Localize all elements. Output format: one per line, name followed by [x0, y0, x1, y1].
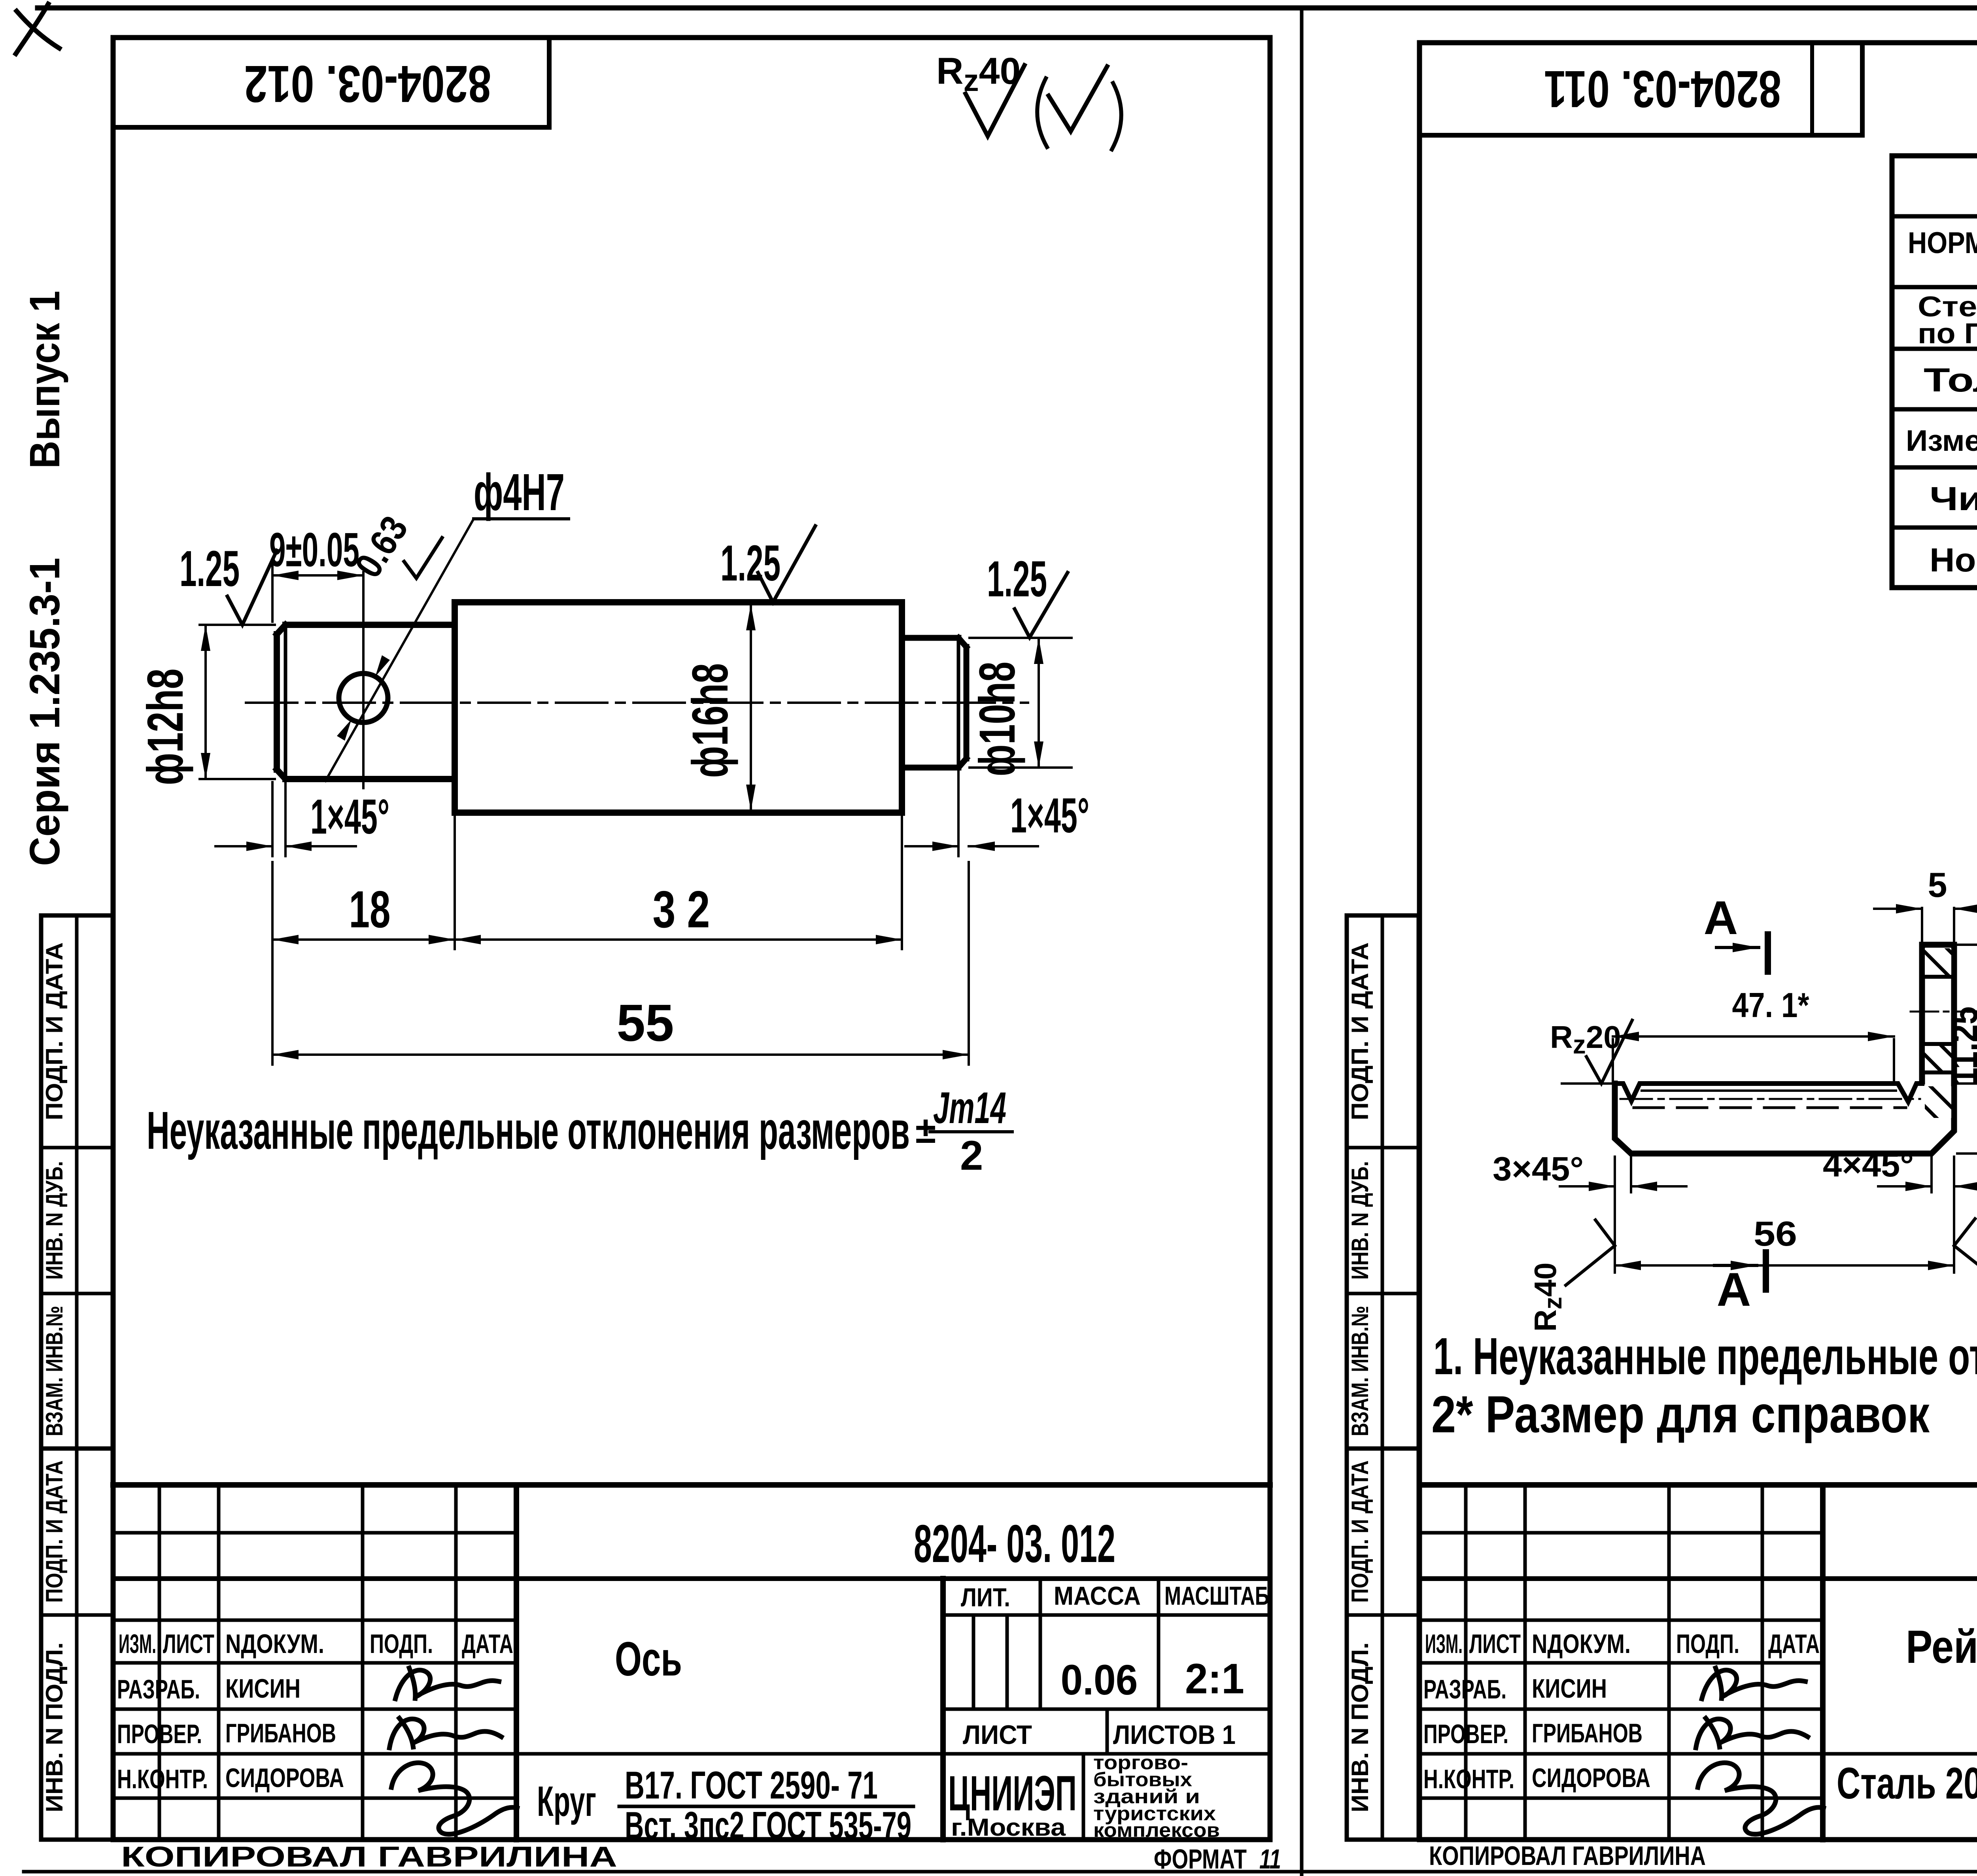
title block vertical lines: [158, 1485, 161, 1840]
svg-text:1.25: 1.25: [987, 551, 1047, 607]
left attribute boxes column (left sheet): [41, 915, 113, 1840]
dim 18: [272, 815, 455, 1065]
pitch line dash-dot: [1620, 1098, 1920, 1100]
phi12/phi16 step edge: [452, 602, 458, 813]
section cut mark top: [1704, 891, 1768, 972]
svg-text:Неуказанные предельные откло: Неуказанные предельные отклонения размер…: [147, 1101, 910, 1160]
right sheet notes: [1431, 1319, 1977, 1443]
dim phi10h8: [969, 638, 1072, 776]
svg-text:Число зубьев: Число зубьев: [1930, 480, 1977, 517]
roughness Rz40 group: [936, 50, 1121, 149]
svg-text:11.25: 11.25: [1943, 1006, 1977, 1086]
dim 1x45 right: [905, 769, 1089, 856]
svg-text:по ГОСТ 10242-73: по ГОСТ 10242-73: [1918, 318, 1977, 350]
right stamp divider: [1810, 43, 1814, 135]
svg-text:ФОРМАТ: ФОРМАТ: [1154, 1844, 1247, 1874]
phi12 left chamfer edge line: [284, 626, 287, 778]
svg-text:1×45°: 1×45°: [1010, 789, 1089, 843]
svg-text:Ось: Ось: [615, 1632, 682, 1686]
svg-text:г.Москва: г.Москва: [951, 1814, 1066, 1841]
tooth tip thin line: [1642, 1089, 1896, 1092]
svg-text:ДАТА: ДАТА: [462, 1629, 513, 1659]
right stamp box: [1419, 43, 1862, 135]
svg-text:18: 18: [349, 880, 391, 938]
hole phi4 circle: [339, 673, 388, 722]
svg-text:Измерительная высота: Измерительная высота: [1906, 424, 1977, 457]
svg-text:1×45°: 1×45°: [310, 790, 389, 844]
svg-text:ф4Н7: ф4Н7: [474, 463, 565, 521]
svg-text:комплексов: комплексов: [1093, 1819, 1220, 1841]
svg-text:0.06: 0.06: [1061, 1656, 1138, 1704]
svg-text:Сталь 20 ГОСТ 1050-74: Сталь 20 ГОСТ 1050-74: [1837, 1759, 1977, 1808]
svg-text:ф12h8: ф12h8: [137, 669, 194, 785]
svg-text:Н.КОНТР.: Н.КОНТР.: [117, 1764, 208, 1794]
dim 47.1*: [1613, 985, 1894, 1082]
svg-text:ЛИТ.: ЛИТ.: [961, 1583, 1010, 1612]
dim 9±0.05: [269, 523, 363, 622]
svg-text:2:1: 2:1: [1185, 1655, 1244, 1702]
svg-text:1. Неуказанные предельные: 1. Неуказанные предельные отклонения раз…: [1433, 1327, 1977, 1385]
svg-text:МАССА: МАССА: [1054, 1581, 1141, 1610]
dim 55: [272, 862, 969, 1065]
roughness 1.25 right: [987, 551, 1068, 637]
svg-text:Выпуск 1: Выпуск 1: [21, 291, 68, 469]
svg-text:МАСШТАБ: МАСШТАБ: [1164, 1581, 1269, 1610]
svg-text:55: 55: [617, 994, 674, 1052]
title block common grid (left sheet), reused for right: [113, 1485, 1270, 1841]
svg-text:Вст. 3пс2 ГОСТ 535-79: Вст. 3пс2 ГОСТ 535-79: [625, 1804, 911, 1847]
svg-text:Rz40: Rz40: [936, 50, 1021, 98]
svg-text:ИНВ. N ДУБ.: ИНВ. N ДУБ.: [41, 1161, 68, 1280]
rack main view outline: [1615, 945, 1954, 1154]
vertical dim 21: [1957, 945, 1977, 1084]
svg-text:ЛИСТ: ЛИСТ: [163, 1629, 214, 1659]
svg-text:ф10h8: ф10h8: [969, 662, 1026, 776]
svg-text:СИДОРОВА: СИДОРОВА: [225, 1763, 344, 1793]
svg-text:ИНВ. N ПОДЛ.: ИНВ. N ПОДЛ.: [41, 1642, 68, 1812]
roughness 1.25 middle: [720, 526, 815, 602]
dim 1x45 left: [215, 782, 389, 856]
svg-text:8204-03. 012: 8204-03. 012: [244, 55, 491, 113]
svg-text:Круг: Круг: [537, 1777, 596, 1825]
svg-text:КОПИРОВАЛ ГАВРИЛИНА: КОПИРОВАЛ ГАВРИЛИНА: [1429, 1841, 1706, 1871]
roughness 0.63 at hole: [347, 509, 442, 585]
svg-text:Рейка: Рейка: [1906, 1621, 1977, 1673]
vertical dim 11.25: [1943, 1006, 1977, 1086]
corner X handwritten mark: [16, 4, 59, 54]
roughness 1.25 left: [180, 541, 277, 625]
dim 5 (flange width): [1874, 865, 1977, 943]
left sheet frame: [113, 38, 1270, 1840]
label phi4H7 with leader: [325, 463, 569, 781]
svg-text:1.25: 1.25: [720, 535, 781, 592]
svg-text:РАЗРАБ.: РАЗРАБ.: [117, 1674, 200, 1704]
svg-text:8204-03. 011: 8204-03. 011: [1544, 60, 1781, 118]
roughness Rz20 top-left: [1550, 1019, 1632, 1084]
flange hatch band 3: [1925, 1086, 1951, 1118]
svg-text:НОРМАЛЬНЫЙ ИСХОДНЫЙ: НОРМАЛЬНЫЙ ИСХОДНЫЙ: [1908, 226, 1977, 260]
dim 3x45: [1493, 1150, 1686, 1192]
svg-text:8204- 03. 012: 8204- 03. 012: [914, 1514, 1115, 1573]
svg-text:ПРОВЕР.: ПРОВЕР.: [117, 1719, 202, 1749]
svg-text:Нормальный шаг: Нормальный шаг: [1930, 541, 1977, 579]
svg-text:В17. ГОСТ 2590- 71: В17. ГОСТ 2590- 71: [625, 1763, 878, 1807]
svg-text:ГРИБАНОВ: ГРИБАНОВ: [225, 1718, 336, 1748]
svg-text:NДОКУМ.: NДОКУМ.: [225, 1629, 324, 1659]
svg-text:Rz20: Rz20: [1550, 1019, 1621, 1059]
svg-text:ЛИСТОВ 1: ЛИСТОВ 1: [1113, 1720, 1236, 1750]
shaft phi12 section body: [277, 625, 455, 779]
svg-text:ЦНИИЭП: ЦНИИЭП: [948, 1766, 1077, 1821]
svg-text:ПОДП.: ПОДП.: [370, 1629, 433, 1659]
dim 4x45: [1823, 1146, 1977, 1192]
svg-text:ПОДП. И ДАТА: ПОДП. И ДАТА: [41, 942, 68, 1120]
dim 32: [455, 815, 902, 949]
right sheet frame: [1419, 43, 1977, 1840]
signature scribbles: [395, 1668, 499, 1699]
svg-text:2: 2: [960, 1133, 983, 1179]
svg-text:5: 5: [1928, 865, 1947, 904]
roughness Rz40 bottom-left: [1528, 1220, 1615, 1332]
svg-text:Толщина зуба: Толщина зуба: [1924, 361, 1977, 399]
hole axis dash-dot through flange: [1911, 1011, 1966, 1013]
svg-text:3 2: 3 2: [653, 880, 710, 938]
svg-text:А: А: [1704, 891, 1738, 944]
svg-text:Серия 1.235.3-1: Серия 1.235.3-1: [21, 558, 68, 866]
svg-text:КИСИН: КИСИН: [225, 1674, 301, 1704]
svg-text:ЛИСТ: ЛИСТ: [963, 1720, 1032, 1750]
center divider between sheets: [1300, 8, 1304, 1876]
flange hatch band 1: [1925, 948, 1951, 977]
title block horizontal lines: [113, 1482, 1270, 1488]
dim phi12h8: [137, 625, 275, 785]
vertical dim 32: [1957, 945, 1977, 1154]
svg-text:Jт14: Jт14: [933, 1083, 1006, 1133]
svg-text:А: А: [1717, 1263, 1751, 1316]
shaft phi16 section body: [455, 602, 902, 813]
svg-text:КОПИРОВАЛ ГАВРИЛИНА: КОПИРОВАЛ ГАВРИЛИНА: [121, 1841, 617, 1873]
section cut mark bottom: [1714, 1252, 1766, 1316]
svg-text:1.25: 1.25: [180, 541, 240, 597]
svg-text:ИЗМ.: ИЗМ.: [119, 1629, 156, 1659]
flange hatch band 2: [1925, 1044, 1951, 1072]
hole vertical center line: [362, 572, 365, 788]
svg-text:2* Размер для справок: 2* Размер для справок: [1431, 1385, 1930, 1443]
svg-text:4×45°: 4×45°: [1823, 1146, 1914, 1184]
svg-text:Rz40: Rz40: [1528, 1262, 1567, 1331]
right sheet attribute boxes column: [1347, 915, 1419, 1840]
gear parameter table: [1892, 156, 1977, 588]
svg-text:11: 11: [1259, 1844, 1281, 1874]
svg-text:9±0.05: 9±0.05: [269, 523, 359, 577]
flange inner lines: [1925, 975, 1951, 979]
svg-text:ф16h8: ф16h8: [682, 663, 739, 778]
left stamp box: [113, 38, 549, 127]
svg-text:ВЗАМ. ИНВ.№: ВЗАМ. ИНВ.№: [41, 1306, 68, 1436]
svg-text:47. 1*: 47. 1*: [1732, 985, 1810, 1025]
root dashed line: [1634, 1106, 1906, 1109]
svg-text:3×45°: 3×45°: [1493, 1150, 1584, 1188]
rack teeth top line with notches: [1615, 1084, 1922, 1102]
shaft phi10 section body: [902, 638, 966, 768]
bottom border line: [24, 1870, 1977, 1874]
dim phi16h8: [682, 604, 751, 811]
phi10 right chamfer edge line: [957, 639, 960, 767]
dim 56: [1615, 1157, 1954, 1273]
shaft axis center line: [246, 702, 1028, 704]
svg-text:ПОДП. И ДАТА: ПОДП. И ДАТА: [41, 1460, 68, 1603]
top border line: [38, 6, 1977, 11]
svg-text:56: 56: [1754, 1214, 1797, 1253]
roughness Rz40 bottom-right: [1954, 1219, 1977, 1332]
left sheet note text: [147, 1083, 1012, 1179]
